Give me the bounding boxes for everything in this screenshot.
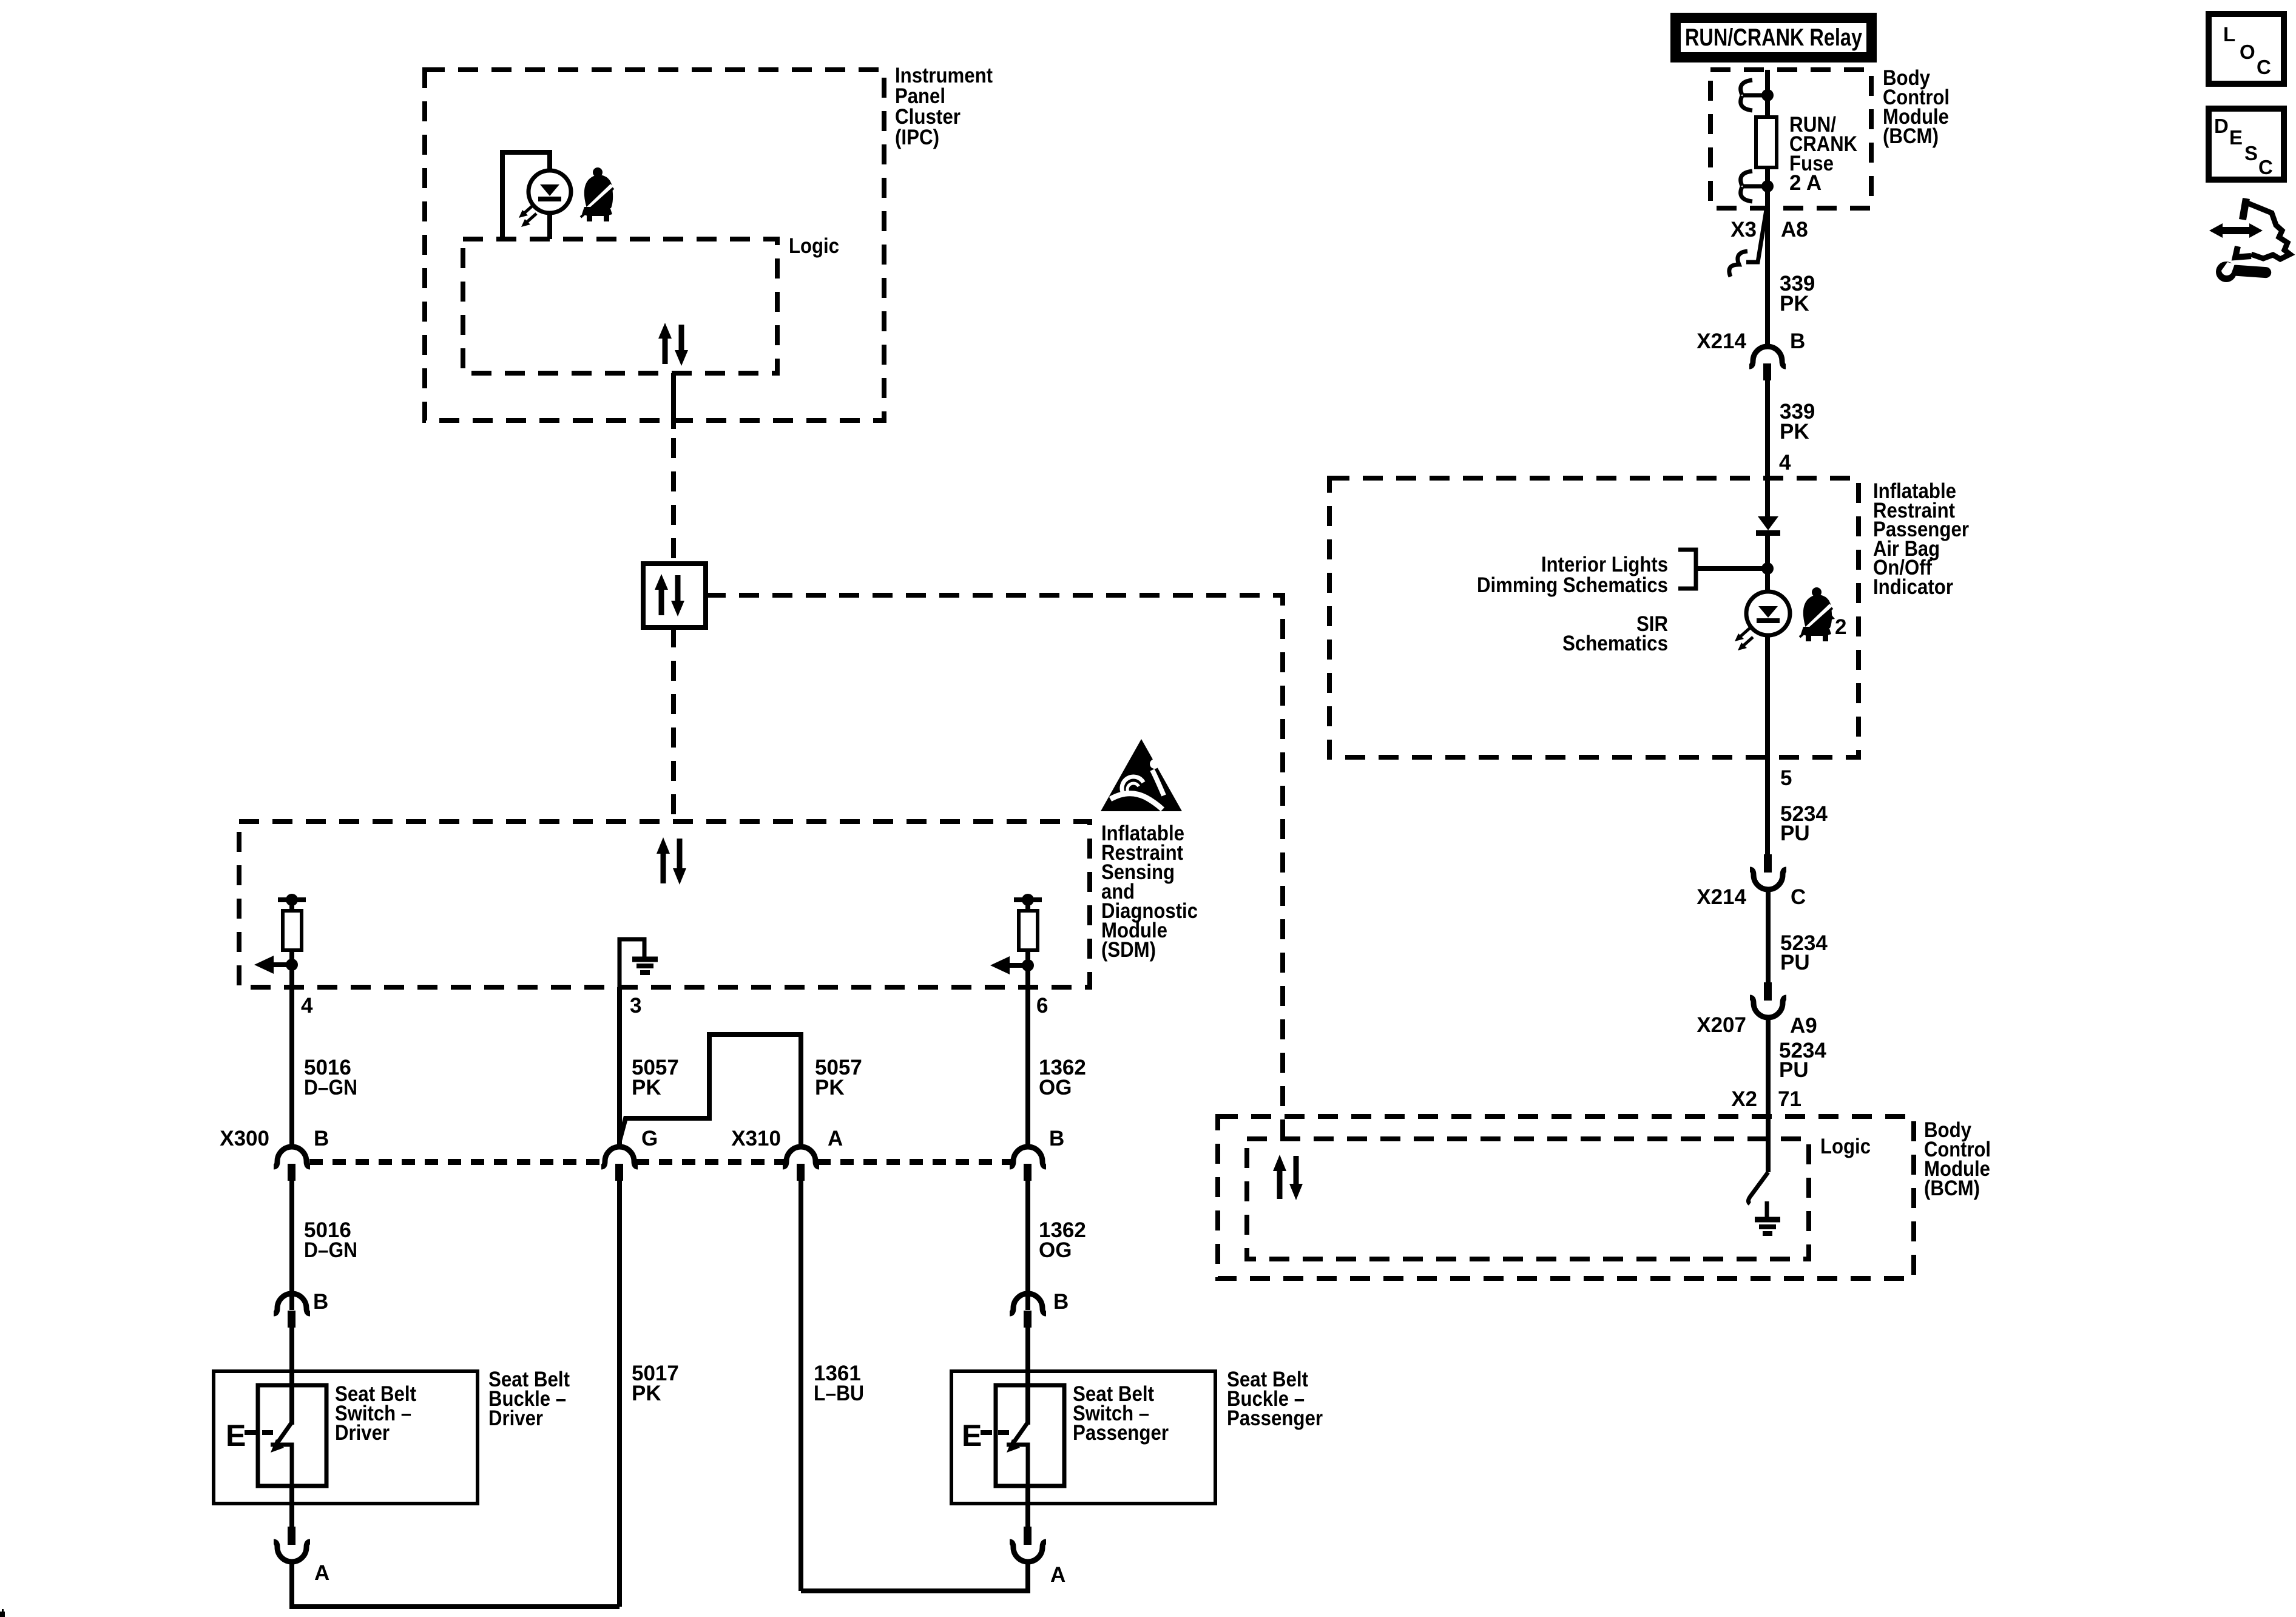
X2 71 labels bbox=[1731, 1087, 1801, 1111]
wire 5017 PK (G down to driver buckle return) bbox=[617, 1181, 622, 1607]
svg-text:2 A: 2 A bbox=[1789, 171, 1822, 195]
svg-text:C: C bbox=[2257, 56, 2271, 78]
LED indicator (air bag on/off) bbox=[1735, 592, 1790, 650]
svg-text:Passenger: Passenger bbox=[1227, 1406, 1323, 1430]
Logic label (BCM) bbox=[1820, 1135, 1871, 1158]
wire B to passenger switch box bbox=[1025, 1328, 1030, 1425]
up/down arrows in comm box bbox=[655, 574, 684, 616]
svg-text:(SDM): (SDM) bbox=[1101, 938, 1156, 962]
wire: from IPC Logic box down through IPC bottom bbox=[671, 373, 676, 429]
dashed data link: comm box right then down to BCM bbox=[706, 595, 1283, 1139]
svg-text:B: B bbox=[1053, 1290, 1069, 1314]
wire: LED to box bottom bbox=[1765, 635, 1770, 757]
svg-text:A9: A9 bbox=[1790, 1014, 1817, 1038]
SDM label text bbox=[1101, 822, 1198, 962]
BCM bottom label bbox=[1924, 1118, 1991, 1200]
DESC box bbox=[2209, 109, 2284, 180]
svg-text:PK: PK bbox=[1780, 420, 1809, 444]
svg-text:(BCM): (BCM) bbox=[1924, 1176, 1980, 1200]
driver switch blade and arrow bbox=[271, 1422, 292, 1486]
svg-text:D: D bbox=[2214, 115, 2229, 137]
connector X214 pin B bbox=[1749, 346, 1786, 380]
svg-text:PK: PK bbox=[1780, 292, 1809, 316]
wire label 339 PK (lower) bbox=[1780, 400, 1815, 444]
svg-text:(BCM): (BCM) bbox=[1883, 124, 1939, 148]
svg-text:G: G bbox=[641, 1127, 658, 1150]
svg-text:Dimming Schematics: Dimming Schematics bbox=[1477, 573, 1668, 597]
connector X310 pin A bbox=[783, 1147, 819, 1181]
pin 4 label bbox=[1779, 451, 1791, 474]
SIR Schematics label bbox=[1562, 612, 1668, 655]
svg-text:D–GN: D–GN bbox=[304, 1238, 357, 1262]
Seat Belt Buckle - Passenger text bbox=[1227, 1368, 1323, 1430]
relay contact lower bbox=[1741, 171, 1774, 201]
svg-text:A8: A8 bbox=[1781, 218, 1808, 241]
connector A passenger bbox=[1010, 1527, 1046, 1562]
label A driver bbox=[314, 1561, 329, 1585]
BCM internal switch bbox=[1748, 1172, 1768, 1204]
wire jog: 5057 PK splice from G to X310 A bbox=[620, 1035, 801, 1146]
svg-text:3: 3 bbox=[630, 994, 641, 1018]
wrench icon bbox=[2216, 262, 2272, 282]
connector B at passenger buckle bbox=[1010, 1294, 1046, 1328]
connector B label (passenger row) bbox=[1049, 1127, 1064, 1150]
connector X207 pin A9 bbox=[1750, 982, 1786, 1018]
SDM driver pull-up: supply bar and dot bbox=[278, 894, 306, 911]
connector X310 label bbox=[731, 1127, 843, 1150]
LOC box bbox=[2209, 14, 2284, 84]
E mechanical link (driver) bbox=[226, 1419, 273, 1453]
wire: resistor to junction, pin 6 bbox=[1025, 950, 1030, 987]
Inflatable Restraint Passenger Air Bag On/Off Indicator dashed box bbox=[1329, 478, 1859, 757]
LED indicator (seat belt warning lamp) in IPC bbox=[519, 170, 571, 227]
connector G label bbox=[641, 1127, 658, 1150]
X3 A8 labels bbox=[1730, 218, 1808, 241]
wire: X207 to BCM bbox=[1766, 1018, 1771, 1172]
wire label 1362 OG lower bbox=[1039, 1218, 1086, 1262]
svg-text:Driver: Driver bbox=[488, 1406, 543, 1430]
svg-text:2: 2 bbox=[1835, 615, 1846, 639]
svg-text:Logic: Logic bbox=[789, 234, 839, 258]
wire label 5016 D-GN bbox=[304, 1056, 357, 1099]
connector G bbox=[601, 1147, 638, 1181]
driver switch inner box bbox=[258, 1385, 326, 1486]
wire 5016 D-GN lower bbox=[289, 1181, 294, 1310]
svg-text:X214: X214 bbox=[1697, 885, 1746, 909]
Interior Lights Dimming Schematics label bbox=[1477, 553, 1668, 597]
svg-text:PU: PU bbox=[1780, 951, 1810, 974]
connector A driver bbox=[274, 1527, 310, 1562]
dashed data link: comm box down to SDM bbox=[671, 627, 676, 822]
svg-text:E: E bbox=[962, 1419, 982, 1453]
wire passenger switch to A bbox=[1025, 1486, 1030, 1527]
svg-text:E: E bbox=[2229, 126, 2243, 149]
wire label 5234 PU (2) bbox=[1780, 931, 1828, 974]
wire: LED feed loop in IPC bbox=[502, 152, 550, 239]
svg-text:L–BU: L–BU bbox=[814, 1382, 864, 1405]
dimming bracket and tap bbox=[1678, 550, 1774, 589]
Logic label (IPC) bbox=[789, 234, 839, 258]
wire label 5057 PK (left) bbox=[632, 1056, 679, 1099]
comm arrow box (serial data symbol) bbox=[643, 564, 706, 627]
direction arrow with outline icon bbox=[2209, 198, 2290, 259]
wire label 5234 PU (1) bbox=[1780, 802, 1828, 845]
Seat Belt Switch - Driver text bbox=[335, 1382, 416, 1445]
passenger switch blade and arrow bbox=[1007, 1422, 1028, 1486]
stray mark bottom-left bbox=[0, 1609, 5, 1617]
wire 1362 OG lower bbox=[1025, 1181, 1030, 1310]
RUN/CRANK Relay title box bbox=[1670, 13, 1877, 62]
svg-text:A: A bbox=[828, 1127, 843, 1150]
svg-text:S: S bbox=[2244, 142, 2258, 164]
E mechanical link (passenger) bbox=[962, 1419, 1009, 1453]
wire: X214 B to air bag box bbox=[1765, 380, 1770, 516]
svg-text:A: A bbox=[314, 1561, 329, 1585]
wire 1361 L-BU (X310 A down to passenger return) bbox=[799, 1181, 803, 1591]
wire label 1362 OG bbox=[1039, 1056, 1086, 1099]
svg-text:PK: PK bbox=[632, 1076, 661, 1099]
svg-text:B: B bbox=[314, 1127, 329, 1150]
wire: BCM to X214 B bbox=[1765, 208, 1770, 349]
SDM ground (pin 3 internal) bbox=[620, 939, 658, 987]
svg-text:E: E bbox=[226, 1419, 246, 1453]
seat belt person icon (air bag box) with 2 bbox=[1800, 587, 1846, 641]
wire label 339 PK (upper) bbox=[1780, 272, 1815, 316]
svg-text:Logic: Logic bbox=[1820, 1135, 1871, 1158]
dashed data link: IPC to comm box bbox=[671, 438, 676, 564]
svg-text:PU: PU bbox=[1779, 1058, 1809, 1082]
diode bbox=[1756, 516, 1780, 536]
Body Control Module (BCM) top dashed box bbox=[1710, 70, 1871, 208]
passenger switch inner box bbox=[996, 1385, 1064, 1486]
svg-text:X300: X300 bbox=[220, 1127, 269, 1150]
SDM passenger pull-up: supply bar and dot bbox=[1014, 894, 1042, 911]
wire 5057 PK (SDM pin 3 to G) bbox=[617, 987, 622, 1146]
svg-text:X214: X214 bbox=[1697, 329, 1746, 353]
BCM bottom inner Logic dashed box bbox=[1247, 1139, 1809, 1259]
svg-text:Indicator: Indicator bbox=[1873, 575, 1953, 599]
wire: relay feed into fuse bbox=[1765, 70, 1770, 115]
wire: driver return loop bbox=[292, 1561, 620, 1607]
wire: X214 C to X207 bbox=[1766, 889, 1771, 982]
svg-text:C: C bbox=[1791, 885, 1806, 909]
wire label 5017 PK bbox=[632, 1362, 679, 1405]
svg-text:PK: PK bbox=[815, 1076, 845, 1099]
svg-text:4: 4 bbox=[301, 994, 313, 1018]
SDM pin numbers bbox=[301, 994, 1048, 1018]
svg-text:L: L bbox=[2223, 23, 2235, 46]
svg-text:6: 6 bbox=[1036, 994, 1048, 1018]
inline connector X3 pin A8 bbox=[1729, 210, 1766, 277]
resistor (SDM passenger pull-up) bbox=[1019, 911, 1038, 950]
IPC label text bbox=[895, 64, 993, 149]
svg-text:(IPC): (IPC) bbox=[895, 126, 939, 149]
svg-text:OG: OG bbox=[1039, 1076, 1072, 1099]
IPC Logic dashed box bbox=[463, 239, 777, 373]
connector X300 label bbox=[220, 1127, 329, 1150]
wire: passenger return loop bbox=[801, 1561, 1028, 1591]
wire label 5016 D-GN lower bbox=[304, 1218, 357, 1262]
svg-text:X207: X207 bbox=[1697, 1013, 1746, 1037]
Seat Belt Switch - Driver box bbox=[214, 1371, 478, 1504]
connector X214 pin C bbox=[1750, 854, 1786, 890]
fuse label bbox=[1789, 113, 1857, 195]
Instrument Panel Cluster (IPC) dashed box bbox=[425, 70, 884, 420]
Seat Belt Switch - Passenger box bbox=[951, 1371, 1215, 1504]
wire: resistor to junction, pin 4 bbox=[289, 950, 294, 987]
X214 B labels bbox=[1697, 329, 1805, 353]
Body Control Module (BCM) bottom outer dashed box bbox=[1218, 1116, 1914, 1278]
svg-text:Driver: Driver bbox=[335, 1421, 390, 1445]
svg-text:X310: X310 bbox=[731, 1127, 781, 1150]
fuse RUN/CRANK 2A bbox=[1756, 117, 1777, 167]
wire label 1361 L-BU bbox=[814, 1362, 864, 1405]
up/down arrows in BCM bbox=[1273, 1155, 1303, 1200]
svg-text:OG: OG bbox=[1039, 1238, 1072, 1262]
svg-text:4: 4 bbox=[1779, 451, 1791, 474]
up/down arrows in SDM bbox=[657, 837, 686, 885]
resistor (SDM driver pull-up) bbox=[283, 911, 302, 950]
svg-text:O: O bbox=[2240, 41, 2255, 63]
wire 5016 D-GN (SDM pin 4 to X300 B) bbox=[289, 987, 294, 1146]
svg-text:PU: PU bbox=[1780, 822, 1810, 845]
label B passenger buckle bbox=[1053, 1290, 1069, 1314]
wire 1362 OG (SDM pin 6 to B) bbox=[1025, 987, 1030, 1146]
svg-text:A: A bbox=[1050, 1563, 1065, 1587]
wire B to driver switch box bbox=[289, 1328, 294, 1425]
svg-text:5: 5 bbox=[1780, 766, 1792, 790]
svg-text:PK: PK bbox=[632, 1382, 661, 1405]
wire: box to X214 C bbox=[1765, 757, 1770, 854]
svg-text:Passenger: Passenger bbox=[1073, 1421, 1169, 1445]
svg-text:D–GN: D–GN bbox=[304, 1076, 357, 1099]
connector B (passenger row) bbox=[1010, 1147, 1046, 1181]
wire: diode to LED bbox=[1765, 536, 1770, 592]
svg-text:B: B bbox=[1790, 329, 1805, 353]
connector X300 pin B bbox=[274, 1147, 310, 1181]
junction dot + signal arrow (driver) bbox=[254, 956, 298, 974]
wire driver switch to A bbox=[289, 1486, 294, 1527]
junction dot + signal arrow (passenger) bbox=[990, 956, 1034, 974]
BCM top label bbox=[1883, 66, 1950, 148]
warning triangle (SIR caution) bbox=[1101, 739, 1182, 811]
BCM internal ground bbox=[1755, 1201, 1780, 1234]
svg-text:B: B bbox=[1049, 1127, 1064, 1150]
Inflatable Restraint Sensing and Diagnostic Module (SDM) dashed box bbox=[239, 822, 1090, 987]
svg-text:RUN/CRANK Relay: RUN/CRANK Relay bbox=[1685, 24, 1863, 51]
relay contact upper bbox=[1741, 80, 1774, 110]
pin 5 label bbox=[1780, 766, 1792, 790]
svg-text:71: 71 bbox=[1778, 1087, 1801, 1111]
svg-text:C: C bbox=[2258, 156, 2273, 178]
label A passenger bbox=[1050, 1563, 1065, 1587]
svg-text:Schematics: Schematics bbox=[1562, 632, 1668, 655]
svg-text:X3: X3 bbox=[1730, 218, 1757, 241]
wire label 5057 PK (right) bbox=[815, 1056, 862, 1099]
Seat Belt Switch - Passenger text bbox=[1073, 1382, 1169, 1445]
X214 C labels bbox=[1697, 885, 1806, 909]
svg-text:X2: X2 bbox=[1731, 1087, 1757, 1111]
seat belt person icon (IPC) bbox=[581, 167, 613, 221]
X207 A9 labels bbox=[1697, 1013, 1817, 1038]
connector B at driver buckle bbox=[274, 1294, 310, 1328]
air bag indicator label bbox=[1873, 479, 1969, 599]
svg-text:B: B bbox=[313, 1290, 328, 1314]
up/down arrows in IPC Logic box bbox=[658, 323, 688, 366]
connector row dashed line X300/X310 bbox=[309, 1159, 1012, 1165]
wire label 5234 PU (3) bbox=[1779, 1039, 1826, 1082]
Seat Belt Buckle - Driver text bbox=[488, 1368, 570, 1430]
wire: fuse to BCM bottom bbox=[1765, 169, 1770, 208]
label B driver buckle bbox=[313, 1290, 328, 1314]
